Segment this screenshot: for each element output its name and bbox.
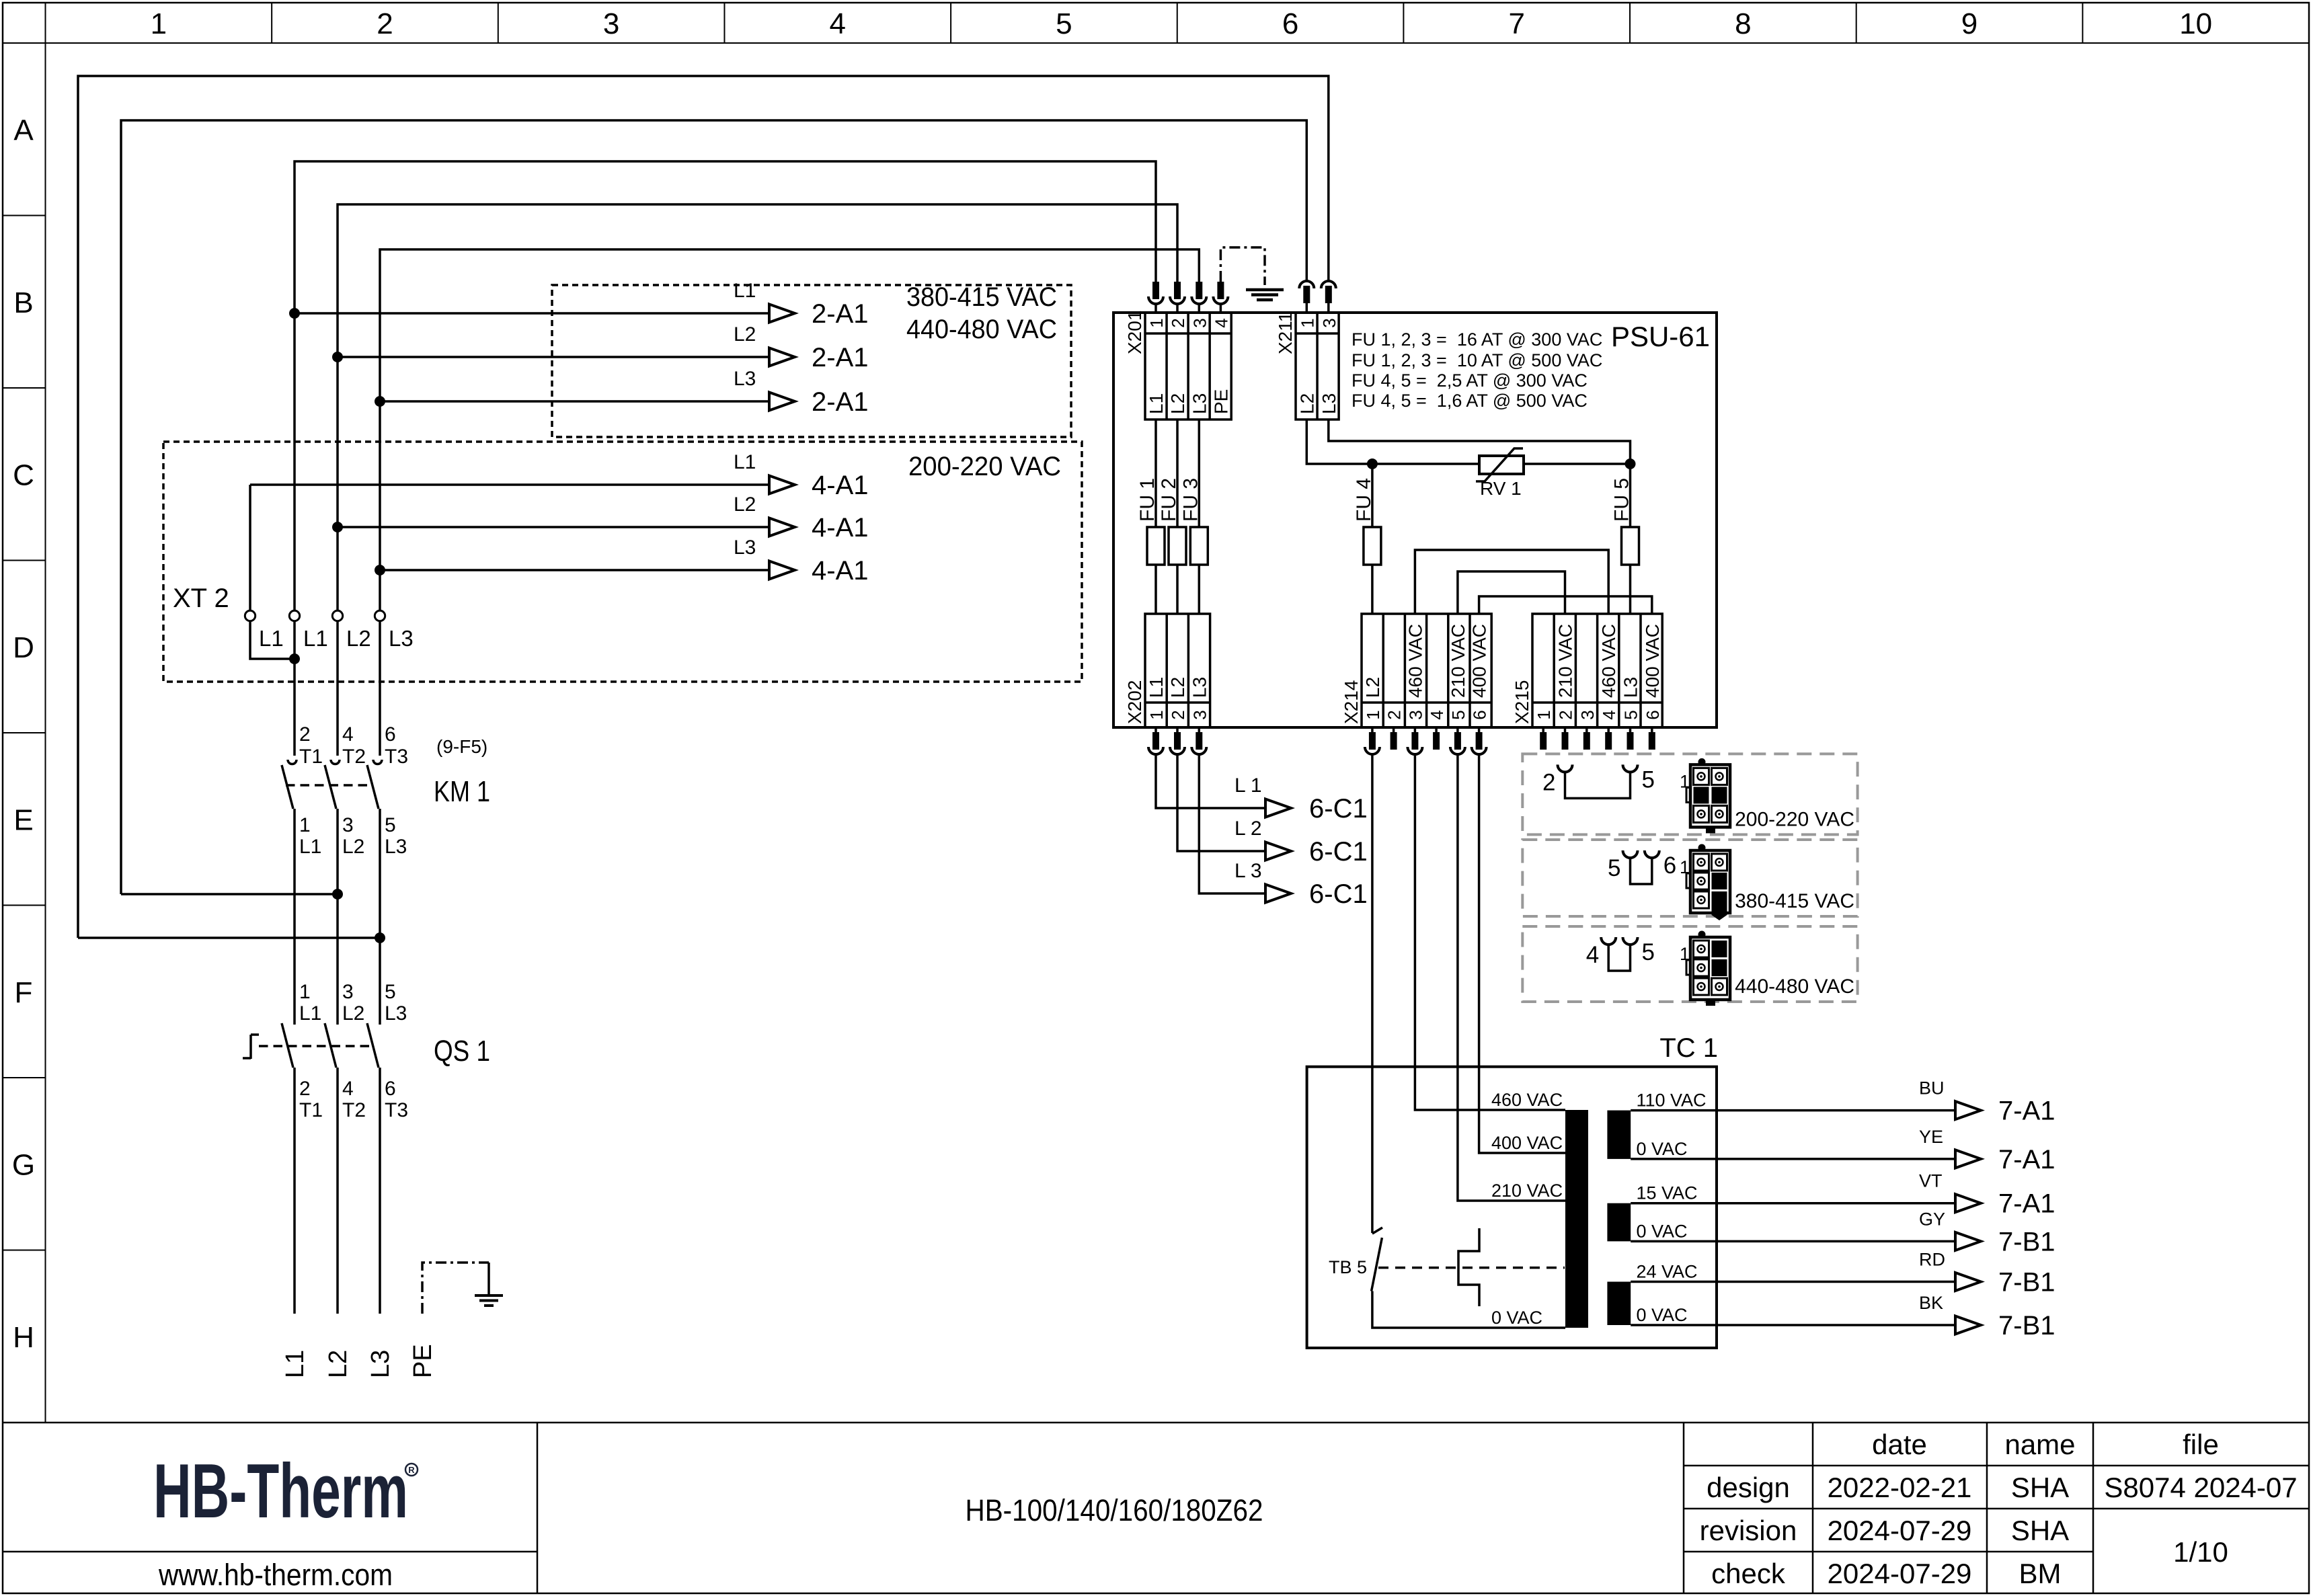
- svg-text:400 VAC: 400 VAC: [1469, 624, 1490, 698]
- svg-text:3: 3: [1577, 710, 1598, 719]
- svg-text:SHA: SHA: [2011, 1472, 2069, 1503]
- svg-text:S8074 2024-07: S8074 2024-07: [2104, 1472, 2297, 1503]
- svg-text:L2: L2: [342, 836, 364, 858]
- svg-text:2022-02-21: 2022-02-21: [1828, 1472, 1972, 1503]
- svg-text:L1: L1: [1146, 677, 1167, 698]
- svg-text:F: F: [15, 976, 33, 1009]
- svg-text:2-A1: 2-A1: [812, 299, 869, 329]
- svg-text:L1: L1: [734, 451, 756, 473]
- svg-text:FU 5: FU 5: [1611, 478, 1633, 522]
- svg-text:4: 4: [830, 7, 846, 40]
- svg-text:X201: X201: [1124, 311, 1145, 354]
- svg-text:X202: X202: [1124, 680, 1145, 724]
- svg-text:FU 2: FU 2: [1158, 478, 1180, 522]
- svg-text:L 3: L 3: [1235, 860, 1262, 882]
- svg-text:7-A1: 7-A1: [1998, 1189, 2055, 1219]
- svg-text:R: R: [408, 1465, 415, 1475]
- svg-text:6: 6: [385, 723, 396, 746]
- svg-text:1: 1: [1680, 857, 1690, 877]
- svg-text:revision: revision: [1700, 1515, 1797, 1546]
- svg-text:T2: T2: [342, 1099, 366, 1121]
- svg-text:1: 1: [151, 7, 167, 40]
- svg-text:4: 4: [342, 723, 354, 746]
- svg-text:G: G: [12, 1148, 35, 1181]
- svg-text:FU 3: FU 3: [1179, 478, 1202, 522]
- svg-text:2: 2: [377, 7, 393, 40]
- svg-text:2-A1: 2-A1: [812, 387, 869, 417]
- svg-text:design: design: [1707, 1472, 1790, 1503]
- svg-text:L2: L2: [1362, 677, 1383, 698]
- svg-text:RV 1: RV 1: [1480, 478, 1522, 499]
- svg-text:B: B: [13, 286, 33, 319]
- svg-text:TC 1: TC 1: [1659, 1033, 1718, 1063]
- svg-text:400 VAC: 400 VAC: [1491, 1133, 1563, 1153]
- svg-text:210 VAC: 210 VAC: [1448, 624, 1468, 698]
- svg-text:2: 2: [299, 1078, 311, 1100]
- svg-text:8: 8: [1735, 7, 1751, 40]
- svg-text:(9-F5): (9-F5): [436, 736, 487, 757]
- svg-text:L3: L3: [734, 536, 756, 559]
- svg-text:FU 4: FU 4: [1353, 478, 1375, 522]
- svg-text:10: 10: [2179, 7, 2212, 40]
- svg-text:X211: X211: [1275, 312, 1296, 354]
- svg-text:3: 3: [1405, 710, 1425, 719]
- svg-text:7-B1: 7-B1: [1998, 1268, 2055, 1298]
- svg-text:SHA: SHA: [2011, 1515, 2069, 1546]
- svg-text:HB-100/140/160/180Z62: HB-100/140/160/180Z62: [966, 1493, 1263, 1527]
- svg-text:4: 4: [1586, 942, 1599, 968]
- svg-text:7-B1: 7-B1: [1998, 1311, 2055, 1341]
- svg-text:1: 1: [1534, 710, 1554, 719]
- svg-text:2024-07-29: 2024-07-29: [1828, 1558, 1972, 1589]
- svg-text:5: 5: [1642, 939, 1655, 965]
- svg-text:GY: GY: [1919, 1209, 1945, 1229]
- svg-text:3: 3: [1189, 318, 1210, 327]
- svg-text:460 VAC: 460 VAC: [1598, 624, 1619, 698]
- svg-text:6-C1: 6-C1: [1309, 794, 1368, 824]
- svg-text:L 2: L 2: [1235, 817, 1262, 840]
- svg-text:400 VAC: 400 VAC: [1642, 624, 1663, 698]
- svg-text:L3: L3: [385, 1002, 407, 1025]
- svg-text:FU 4, 5 = 2,5 AT @ 300 VAC: FU 4, 5 = 2,5 AT @ 300 VAC: [1352, 370, 1588, 391]
- svg-text:L3: L3: [1620, 677, 1641, 698]
- svg-text:15 VAC: 15 VAC: [1637, 1183, 1698, 1203]
- svg-text:200-220 VAC: 200-220 VAC: [908, 452, 1061, 481]
- svg-text:3: 3: [342, 981, 354, 1003]
- svg-text:L1: L1: [259, 626, 284, 651]
- svg-text:BU: BU: [1919, 1078, 1945, 1099]
- svg-text:2: 2: [1168, 318, 1188, 327]
- svg-text:9: 9: [1961, 7, 1977, 40]
- svg-text:210 VAC: 210 VAC: [1555, 624, 1576, 698]
- svg-text:4: 4: [342, 1078, 354, 1100]
- svg-text:L1: L1: [1146, 393, 1167, 414]
- svg-text:L2: L2: [346, 626, 371, 651]
- svg-text:name: name: [2004, 1429, 2075, 1460]
- svg-text:C: C: [13, 458, 34, 491]
- svg-text:D: D: [13, 631, 34, 664]
- svg-text:3: 3: [603, 7, 619, 40]
- svg-text:5: 5: [1056, 7, 1072, 40]
- svg-text:QS 1: QS 1: [434, 1035, 490, 1068]
- svg-text:E: E: [13, 803, 33, 836]
- svg-text:L3: L3: [1319, 393, 1339, 414]
- svg-text:4: 4: [1427, 710, 1447, 719]
- svg-text:FU 1, 2, 3 = 10 AT @ 500 VAC: FU 1, 2, 3 = 10 AT @ 500 VAC: [1352, 350, 1602, 370]
- svg-text:380-415 VAC: 380-415 VAC: [1735, 890, 1854, 912]
- svg-text:5: 5: [1608, 855, 1620, 881]
- svg-text:check: check: [1711, 1558, 1786, 1589]
- svg-text:L2: L2: [734, 323, 756, 346]
- svg-text:7-A1: 7-A1: [1998, 1096, 2055, 1126]
- svg-text:PSU-61: PSU-61: [1611, 321, 1710, 352]
- svg-text:1: 1: [299, 814, 311, 836]
- svg-text:5: 5: [1448, 710, 1468, 719]
- svg-text:L3: L3: [385, 836, 407, 858]
- svg-text:T3: T3: [385, 1099, 408, 1121]
- svg-text:file: file: [2183, 1429, 2219, 1460]
- svg-text:1: 1: [1146, 710, 1167, 719]
- svg-text:PE: PE: [409, 1344, 437, 1378]
- svg-text:YE: YE: [1919, 1127, 1943, 1147]
- svg-text:4: 4: [1599, 710, 1619, 719]
- svg-text:6: 6: [1470, 710, 1490, 719]
- svg-text:PE: PE: [1210, 389, 1231, 414]
- svg-text:XT 2: XT 2: [173, 584, 229, 613]
- svg-text:4-A1: 4-A1: [812, 513, 869, 543]
- svg-text:2: 2: [1556, 710, 1576, 719]
- svg-text:200-220 VAC: 200-220 VAC: [1735, 808, 1854, 830]
- svg-text:1/10: 1/10: [2173, 1536, 2228, 1568]
- svg-text:440-480 VAC: 440-480 VAC: [1735, 975, 1854, 998]
- svg-text:L2: L2: [1296, 393, 1317, 414]
- svg-text:L3: L3: [1189, 393, 1210, 414]
- svg-text:2: 2: [299, 723, 311, 746]
- svg-text:L1: L1: [299, 1002, 321, 1025]
- svg-text:0 VAC: 0 VAC: [1637, 1305, 1688, 1325]
- svg-text:4: 4: [1211, 318, 1231, 327]
- svg-text:1: 1: [1297, 318, 1317, 327]
- svg-text:0 VAC: 0 VAC: [1491, 1308, 1542, 1328]
- svg-text:6-C1: 6-C1: [1309, 837, 1368, 867]
- svg-text:VT: VT: [1919, 1171, 1943, 1191]
- svg-text:L2: L2: [1167, 677, 1188, 698]
- svg-text:0 VAC: 0 VAC: [1637, 1139, 1688, 1159]
- svg-text:5: 5: [1642, 766, 1655, 793]
- svg-text:L3: L3: [389, 626, 414, 651]
- svg-text:460 VAC: 460 VAC: [1491, 1090, 1563, 1110]
- svg-text:RD: RD: [1919, 1250, 1945, 1270]
- svg-text:3: 3: [1189, 710, 1210, 719]
- svg-text:2: 2: [1168, 710, 1188, 719]
- svg-text:2024-07-29: 2024-07-29: [1828, 1515, 1972, 1546]
- svg-text:X215: X215: [1512, 680, 1532, 724]
- svg-text:3: 3: [342, 814, 354, 836]
- svg-text:L2: L2: [734, 493, 756, 516]
- svg-text:L3: L3: [1189, 677, 1210, 698]
- svg-text:date: date: [1872, 1429, 1927, 1460]
- svg-text:2: 2: [1542, 769, 1555, 795]
- svg-text:FU 1, 2, 3 = 16 AT @ 300 VAC: FU 1, 2, 3 = 16 AT @ 300 VAC: [1352, 329, 1602, 350]
- svg-text:L1: L1: [734, 280, 756, 302]
- svg-text:24 VAC: 24 VAC: [1637, 1262, 1698, 1282]
- svg-text:1: 1: [299, 981, 311, 1003]
- svg-text:6: 6: [1282, 7, 1298, 40]
- svg-text:T1: T1: [299, 746, 323, 768]
- svg-text:1: 1: [1363, 710, 1383, 719]
- svg-text:2-A1: 2-A1: [812, 343, 869, 372]
- svg-text:www.hb-therm.com: www.hb-therm.com: [158, 1558, 393, 1592]
- svg-text:7-A1: 7-A1: [1998, 1145, 2055, 1174]
- svg-text:X214: X214: [1341, 680, 1362, 724]
- svg-text:1: 1: [1680, 944, 1690, 964]
- svg-text:210 VAC: 210 VAC: [1491, 1181, 1563, 1201]
- svg-text:2: 2: [1384, 710, 1405, 719]
- svg-text:5: 5: [385, 981, 396, 1003]
- svg-text:L1: L1: [303, 626, 328, 651]
- svg-text:L3: L3: [734, 368, 756, 390]
- svg-text:3: 3: [1319, 318, 1339, 327]
- svg-text:TB 5: TB 5: [1329, 1257, 1367, 1277]
- svg-text:BM: BM: [2019, 1558, 2062, 1589]
- svg-text:L3: L3: [366, 1350, 395, 1378]
- svg-text:0 VAC: 0 VAC: [1637, 1221, 1688, 1241]
- svg-text:L2: L2: [342, 1002, 364, 1025]
- svg-text:T2: T2: [342, 746, 366, 768]
- svg-text:1: 1: [1680, 771, 1690, 791]
- svg-text:HB-Therm: HB-Therm: [153, 1449, 408, 1534]
- svg-text:L2: L2: [1167, 393, 1188, 414]
- svg-text:T1: T1: [299, 1099, 323, 1121]
- svg-text:4-A1: 4-A1: [812, 556, 869, 586]
- svg-text:7-B1: 7-B1: [1998, 1227, 2055, 1256]
- svg-text:7: 7: [1508, 7, 1524, 40]
- svg-text:1: 1: [1146, 318, 1167, 327]
- svg-text:L2: L2: [324, 1350, 352, 1378]
- svg-text:FU 4, 5 = 1,6 AT @ 500 VAC: FU 4, 5 = 1,6 AT @ 500 VAC: [1352, 391, 1588, 411]
- svg-text:L 1: L 1: [1235, 774, 1262, 797]
- svg-text:KM 1: KM 1: [434, 775, 490, 808]
- svg-text:440-480 VAC: 440-480 VAC: [906, 315, 1057, 344]
- svg-text:5: 5: [1621, 710, 1641, 719]
- svg-text:380-415 VAC: 380-415 VAC: [906, 282, 1057, 312]
- svg-text:6: 6: [385, 1078, 396, 1100]
- svg-text:6: 6: [1663, 852, 1676, 879]
- svg-text:110 VAC: 110 VAC: [1637, 1090, 1707, 1111]
- svg-text:FU 1: FU 1: [1136, 478, 1159, 522]
- svg-text:L1: L1: [281, 1350, 309, 1378]
- svg-text:5: 5: [385, 814, 396, 836]
- svg-text:6-C1: 6-C1: [1309, 879, 1368, 909]
- svg-text:4-A1: 4-A1: [812, 471, 869, 500]
- svg-text:BK: BK: [1919, 1293, 1943, 1313]
- svg-text:6: 6: [1643, 710, 1663, 719]
- svg-text:460 VAC: 460 VAC: [1405, 624, 1425, 698]
- svg-text:A: A: [13, 114, 34, 147]
- svg-text:T3: T3: [385, 746, 408, 768]
- svg-text:L1: L1: [299, 836, 321, 858]
- svg-text:H: H: [13, 1321, 34, 1354]
